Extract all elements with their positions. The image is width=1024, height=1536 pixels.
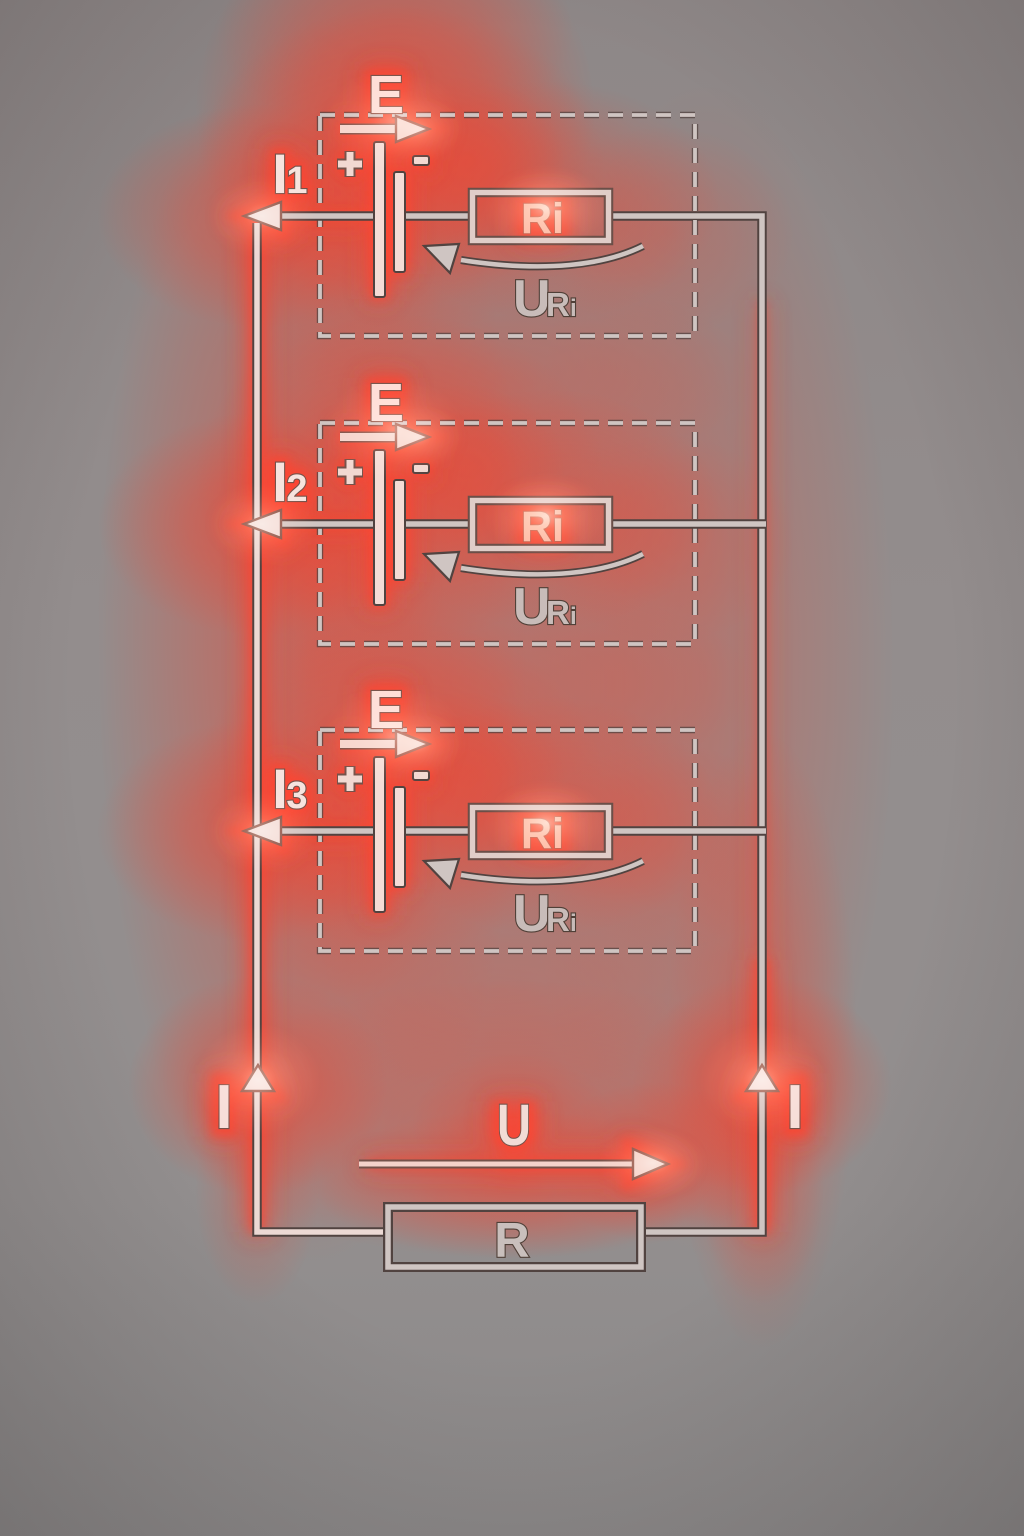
label I2 (272, 450, 307, 513)
polarity minus sign, cell 2 (413, 464, 429, 473)
internal resistor Ri of cell 1 (473, 193, 609, 241)
current arrow I on right bus (points up) (746, 1065, 778, 1091)
svg-text:U: U (497, 1093, 531, 1158)
polarity plus sign, cell 2 (337, 459, 363, 485)
cell 2 group (244, 373, 766, 644)
svg-text:i: i (570, 295, 577, 322)
polarity plus sign, cell 1 (337, 151, 363, 177)
wire: cell 3 branch, arrowhead to battery (278, 826, 374, 836)
cell 1 group (244, 65, 695, 336)
current arrow I1 (points left) (244, 202, 281, 230)
wire: cell 2 branch, arrowhead to battery (278, 519, 374, 529)
voltage arrow U_Ri (curved), cell 3 (424, 859, 643, 888)
current arrow I on left bus (points up) (242, 1065, 274, 1091)
svg-text:U: U (513, 885, 551, 943)
svg-text:i: i (570, 603, 577, 630)
voltage arrow U_Ri (curved), cell 2 (424, 552, 643, 581)
internal resistor Ri of cell 2 (473, 501, 609, 549)
battery cell 3: long positive plate (374, 757, 385, 912)
svg-text:i: i (570, 910, 577, 937)
wire: cell 1 branch, battery to Ri (405, 211, 472, 221)
wire: cell 1 branch, arrowhead to battery (278, 211, 374, 221)
label I1 (272, 142, 307, 205)
label U_Ri, cell 3 (513, 885, 577, 943)
wire: cell 3 branch, battery to Ri (405, 826, 472, 836)
EMF direction arrow of cell 1 (340, 116, 429, 142)
ambient glow wash (decorative) (97, 0, 895, 1350)
voltage arrow U (points right) (359, 1149, 668, 1179)
battery cell 1: short negative plate (394, 172, 405, 272)
battery cell 1: long positive plate (374, 142, 385, 297)
wire: cell 3 branch, Ri to right bus (609, 826, 766, 836)
battery cell 2: long positive plate (374, 450, 385, 605)
dashed boundary box of cell 2 (320, 423, 695, 644)
polarity plus sign, cell 3 (337, 766, 363, 792)
svg-text:R: R (546, 901, 570, 938)
internal resistor Ri of cell 3 (473, 808, 609, 856)
svg-text:U: U (513, 270, 551, 328)
polarity minus sign, cell 1 (413, 156, 429, 165)
wire: cell 2 branch, Ri to right bus (609, 519, 766, 529)
dashed boundary box of cell 1 (320, 115, 695, 336)
EMF direction arrow of cell 2 (340, 424, 429, 450)
svg-text:R: R (546, 286, 570, 323)
wire: cell 1 branch to right bus, right bus, bottom-right segment (609, 216, 762, 1232)
battery cell 2: short negative plate (394, 480, 405, 580)
EMF direction arrow of cell 3 (340, 731, 429, 757)
cell 3 group (244, 680, 766, 951)
load resistor R (388, 1207, 641, 1267)
wire: cell 2 branch, battery to Ri (405, 519, 472, 529)
label I3 (272, 757, 307, 820)
polarity minus sign, cell 3 (413, 771, 429, 780)
wire: left bus and bottom-left segment to load resistor (257, 223, 383, 1232)
svg-text:U: U (513, 578, 551, 636)
svg-text:R: R (546, 594, 570, 631)
voltage arrow U_Ri (curved), cell 1 (424, 244, 643, 273)
svg-text:R: R (494, 1214, 529, 1268)
battery cell 3: short negative plate (394, 787, 405, 887)
label U_Ri, cell 1 (513, 270, 577, 328)
current arrow I3 (points left) (244, 817, 281, 845)
dashed boundary box of cell 3 (320, 730, 695, 951)
label U_Ri, cell 2 (513, 578, 577, 636)
current arrow I2 (points left) (244, 510, 281, 538)
